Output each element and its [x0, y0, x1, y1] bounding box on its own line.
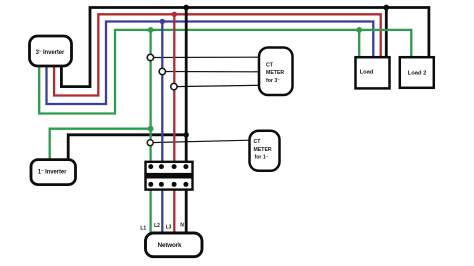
wire: green branch down to Load — [358, 30, 360, 58]
node: black junction N with 1~ inverter — [184, 132, 189, 137]
node: green junction branch to Load — [356, 27, 362, 33]
svg-text:Load 2: Load 2 — [408, 70, 427, 76]
svg-text:METER: METER — [266, 70, 284, 76]
node: blue junction top bus — [160, 19, 165, 24]
node: green junction top bus — [148, 27, 154, 33]
wire: thin CT sense line L1 to CT meter 3 — [151, 56, 259, 58]
svg-text:METER: METER — [254, 147, 272, 153]
wire: red L3 from 3~ inverter loop, top bus to Load — [54, 14, 381, 95]
wire: black N from 3~ inverter loop, top bus to Load 2 — [61, 8, 429, 87]
node: red junction top bus — [172, 12, 177, 17]
svg-text:N: N — [180, 223, 184, 229]
svg-text:L3: L3 — [166, 224, 172, 230]
svg-text:L2: L2 — [154, 223, 160, 229]
box: CT METER for 1~ — [250, 131, 280, 171]
CT coil on L3 for 3~ meter — [171, 83, 177, 89]
node: black junction branch to Load — [383, 5, 389, 11]
wire: black branch down to Load — [385, 8, 388, 59]
svg-text:L1: L1 — [140, 225, 146, 231]
box: Load — [356, 57, 390, 88]
CT coil on L1 for 3~ meter — [147, 54, 153, 60]
CT coil on L2 for 3~ meter — [159, 68, 165, 74]
wire: green L1 from 3~ inverter loop, top bus to Load 2 — [39, 30, 411, 114]
wire: green branch to 1~ inverter — [50, 129, 151, 161]
svg-text:CT: CT — [254, 139, 262, 145]
svg-text:Network: Network — [158, 242, 182, 249]
wire: blue L2 from 3~ inverter loop, top bus to Load — [47, 22, 374, 105]
box: Network — [146, 233, 203, 257]
svg-text:CT: CT — [266, 63, 274, 69]
wire: thin CT sense line L3 to CT meter 3 — [174, 85, 259, 86]
box: 1~ Inverter — [31, 160, 76, 185]
wire: black N trunk vertical — [185, 8, 188, 234]
terminal block (breaker) — [146, 162, 193, 190]
svg-text:Load: Load — [360, 70, 374, 76]
wire: blue L2 trunk vertical — [161, 22, 163, 234]
CT coil on L1 for 1~ meter — [147, 140, 153, 146]
wire: red L3 trunk vertical — [173, 14, 175, 233]
wire: green L1 trunk vertical — [149, 30, 151, 234]
wire: thin CT sense line L1 to CT meter 1 — [151, 140, 250, 142]
wire: black branch from 1~ inverter to N trunk — [68, 135, 186, 161]
node: black junction top bus — [183, 5, 189, 11]
node: green junction to 1~ inverter — [148, 126, 154, 132]
box: 3~ Inverter — [30, 36, 72, 66]
wire: thin CT sense line L2 to CT meter 3 — [162, 71, 259, 73]
box: CT METER for 3~ — [259, 48, 293, 96]
box: Load 2 — [400, 57, 434, 88]
